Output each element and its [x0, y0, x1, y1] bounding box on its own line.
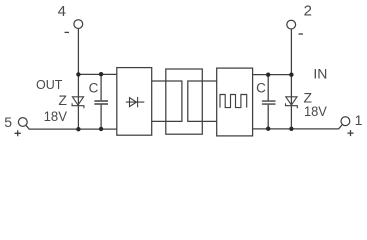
- svg-text:5: 5: [4, 114, 12, 130]
- svg-text:1: 1: [355, 112, 363, 128]
- svg-text:2: 2: [304, 3, 312, 20]
- svg-text:C: C: [89, 81, 99, 96]
- svg-text:Z: Z: [58, 92, 67, 108]
- svg-text:18V: 18V: [44, 108, 68, 124]
- svg-text:4: 4: [58, 3, 66, 20]
- svg-text:18V: 18V: [304, 103, 327, 119]
- svg-text:C: C: [256, 80, 266, 95]
- svg-text:IN: IN: [313, 66, 327, 82]
- svg-text:OUT: OUT: [36, 78, 63, 92]
